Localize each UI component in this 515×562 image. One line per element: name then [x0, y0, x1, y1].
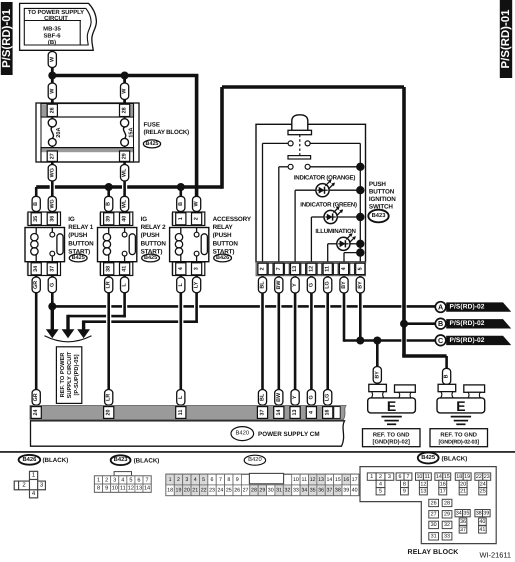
relay coil: [35, 228, 37, 234]
power supply CM connector strip: [30, 406, 346, 420]
svg-text:20: 20: [460, 481, 466, 487]
page tab P/S(RD)-01 right: [500, 0, 512, 78]
svg-text:15: 15: [444, 474, 450, 480]
svg-text:15A: 15A: [128, 127, 134, 137]
svg-text:BY: BY: [357, 281, 363, 289]
svg-text:24: 24: [217, 488, 223, 494]
svg-text:22: 22: [476, 474, 482, 480]
svg-text:40: 40: [479, 519, 485, 525]
svg-text:2: 2: [177, 477, 180, 483]
svg-text:TO POWER SUPPLY: TO POWER SUPPLY: [28, 9, 84, 16]
wire BY switch pin 5 to bus D: [359, 276, 362, 341]
wire label L below IG relay 2: [121, 277, 129, 293]
svg-text:LR: LR: [106, 394, 112, 401]
svg-text:RELAY 1: RELAY 1: [68, 224, 93, 231]
svg-text:RELAY 2: RELAY 2: [141, 224, 166, 231]
svg-text:12: 12: [420, 481, 426, 487]
svg-text:4: 4: [341, 267, 347, 270]
junction node LED illumination: [356, 240, 364, 248]
svg-text:14: 14: [144, 486, 150, 492]
svg-text:ACCESSORY: ACCESSORY: [213, 216, 252, 223]
wire label BY below switch pin 4: [340, 277, 348, 293]
svg-text:11: 11: [120, 486, 126, 492]
junction node LED orange: [356, 186, 364, 194]
junction node B bus at IG relay 2: [105, 183, 113, 191]
wire WL fuse to IG relay 2: [123, 147, 126, 213]
CM connector pin 4: [306, 407, 316, 419]
svg-text:7: 7: [219, 477, 222, 483]
svg-text:BY: BY: [341, 281, 347, 289]
legend connector B423: [114, 472, 131, 476]
svg-text:25: 25: [226, 488, 232, 494]
svg-text:GR: GR: [33, 281, 39, 289]
svg-text:3: 3: [194, 267, 200, 270]
wire label Y below switch: [291, 277, 299, 293]
fuse relay block box: [36, 103, 139, 162]
svg-text:INDICATOR (GREEN): INDICATOR (GREEN): [300, 201, 357, 208]
relay box: [170, 228, 209, 262]
svg-text:9: 9: [105, 486, 108, 492]
LED indicator green: [311, 216, 324, 218]
wire W net from power supply banner: [52, 49, 198, 212]
svg-text:[GND(RD)-02-03]: [GND(RD)-02-03]: [439, 440, 480, 446]
wire LG switch to CM 16: [326, 276, 329, 406]
svg-text:37: 37: [260, 410, 266, 416]
connector pin 28: [120, 104, 130, 116]
wire label BY below switch pin 5: [356, 277, 364, 293]
svg-text:REF. TO GND: REF. TO GND: [373, 432, 410, 439]
push button cap: [292, 115, 308, 131]
svg-text:P/S(RD)-01: P/S(RD)-01: [1, 8, 13, 68]
svg-text:(PUSH: (PUSH: [141, 232, 160, 239]
fuse block bottom connector row: [41, 148, 134, 153]
svg-text:BUTTON: BUTTON: [213, 240, 239, 247]
arrow ref 2 shaft: [66, 315, 69, 330]
svg-text:12: 12: [308, 266, 314, 272]
switch connector strip: [256, 262, 366, 276]
connector oval B425: [142, 254, 160, 262]
CM connector pin 24: [31, 407, 41, 419]
fuse 15A: [124, 117, 126, 119]
wire label W above accessory relay: [193, 196, 201, 211]
wire G switch to CM 4: [310, 276, 313, 406]
svg-text:WL: WL: [122, 199, 128, 208]
relay coil: [108, 228, 110, 234]
svg-text:8: 8: [227, 477, 230, 483]
svg-text:35: 35: [463, 510, 469, 516]
legend oval B420: [244, 455, 265, 465]
svg-text:39: 39: [343, 488, 349, 494]
svg-text:10: 10: [293, 477, 299, 483]
svg-text:28: 28: [251, 488, 257, 494]
svg-text:14: 14: [276, 410, 282, 416]
svg-text:BUTTON: BUTTON: [141, 240, 167, 247]
svg-text:9: 9: [403, 489, 406, 495]
svg-text:B: B: [33, 202, 39, 206]
svg-text:14: 14: [326, 477, 332, 483]
svg-text:28: 28: [122, 107, 128, 113]
svg-text:FUSE: FUSE: [144, 122, 161, 129]
connector oval B425: [69, 254, 87, 262]
svg-text:30: 30: [268, 488, 274, 494]
svg-text:8: 8: [403, 481, 406, 487]
junction node W bus left: [48, 72, 56, 80]
svg-text:37: 37: [326, 488, 332, 494]
wire BY switch pin 4 to bus D: [343, 276, 346, 342]
separator line: [0, 451, 515, 453]
svg-text:5: 5: [202, 477, 205, 483]
ground E1: [369, 384, 387, 391]
svg-text:30: 30: [431, 522, 437, 528]
svg-text:P/S(RD)-02: P/S(RD)-02: [450, 320, 485, 327]
junction node B net at circuit B: [400, 320, 408, 328]
svg-text:27: 27: [243, 488, 249, 494]
svg-text:8: 8: [97, 486, 100, 492]
connector pin 26: [47, 104, 57, 116]
legend oval B423: [111, 455, 131, 465]
svg-text:B: B: [438, 319, 443, 328]
svg-text:38: 38: [106, 266, 112, 272]
relay IG RELAY 2 connector top: [99, 212, 102, 225]
svg-text:14: 14: [436, 474, 442, 480]
svg-text:LR: LR: [106, 281, 112, 288]
fuse block top connector row: [41, 104, 134, 118]
svg-text:G: G: [49, 283, 55, 287]
ref arrows to power supply circuit: [46, 329, 59, 338]
wire label LG above CM 16: [324, 390, 332, 406]
relay connector bottom: [99, 262, 102, 275]
CM connector pin 37: [257, 407, 267, 419]
svg-text:34: 34: [456, 510, 462, 516]
svg-text:29: 29: [259, 488, 265, 494]
wire label BL below switch: [258, 277, 266, 293]
junction node contact pair 2 right: [356, 163, 364, 171]
svg-text:41: 41: [122, 266, 128, 272]
legend connector B426 cross: [14, 471, 45, 497]
svg-text:18: 18: [167, 488, 173, 494]
svg-text:36: 36: [318, 488, 324, 494]
svg-text:10: 10: [416, 474, 422, 480]
svg-text:B: B: [178, 202, 184, 206]
svg-text:B425: B425: [146, 141, 159, 147]
svg-text:LG: LG: [325, 281, 331, 289]
connector oval B426: [214, 254, 232, 262]
wire label LG below switch: [324, 277, 332, 293]
switch connector pin 4: [339, 263, 348, 274]
B425 cells group 10-13: [416, 473, 424, 480]
svg-text:4: 4: [178, 267, 184, 270]
svg-text:RELAY: RELAY: [213, 224, 234, 231]
wire B net to ground E2: [402, 356, 446, 385]
svg-text:B420: B420: [236, 430, 250, 437]
switch connector pin 12: [307, 263, 316, 274]
wire label W below banner: [48, 52, 56, 68]
svg-text:W: W: [122, 88, 128, 94]
svg-text:1: 1: [178, 217, 184, 220]
push button ignition switch box: [256, 124, 366, 262]
svg-text:WI-21611: WI-21611: [480, 551, 512, 560]
svg-text:ILLUMINATION: ILLUMINATION: [315, 228, 355, 235]
svg-text:IGNITION: IGNITION: [369, 196, 396, 203]
svg-text:24: 24: [480, 481, 486, 487]
svg-text:WG: WG: [49, 199, 55, 208]
relay box: [25, 228, 65, 262]
svg-text:39: 39: [483, 510, 489, 516]
svg-text:GR: GR: [33, 393, 39, 401]
relay contact: [51, 228, 53, 233]
wire label G below IG relay 1: [48, 277, 56, 293]
wire label Y above CM 13: [291, 390, 299, 406]
circuit arrow C P/S(RD)-02: [446, 336, 511, 345]
wire label B above accessory relay: [177, 196, 185, 211]
wire BW switch to CM 14: [277, 276, 280, 406]
circuit arrow A P/S(RD)-02: [446, 302, 511, 311]
svg-text:26: 26: [431, 500, 437, 506]
svg-text:21: 21: [192, 488, 198, 494]
svg-text:[P-SUP(PD)-05]: [P-SUP(PD)-05]: [73, 354, 80, 395]
connector pin 27: [47, 151, 57, 161]
arrow ref 3 shaft: [82, 320, 85, 330]
svg-text:(RELAY BLOCK): (RELAY BLOCK): [144, 129, 190, 136]
junction node bus D at ground wire: [373, 337, 381, 345]
wire label W above fuse 28: [121, 83, 129, 100]
svg-text:11: 11: [178, 410, 184, 416]
svg-text:SBF-6: SBF-6: [43, 32, 61, 39]
switch connector pin 11: [323, 263, 332, 274]
legend connector B420: [166, 474, 359, 495]
svg-text:[GND(RD)-02]: [GND(RD)-02]: [373, 439, 410, 446]
CM connector pin 20: [104, 407, 114, 419]
svg-text:6: 6: [211, 477, 214, 483]
svg-text:WG: WG: [49, 168, 55, 177]
svg-text:34: 34: [301, 488, 307, 494]
svg-text:BL: BL: [260, 281, 266, 289]
svg-text:32: 32: [285, 488, 291, 494]
connector oval B420 CM: [231, 427, 254, 441]
svg-text:W: W: [194, 200, 200, 206]
svg-text:7: 7: [145, 477, 148, 483]
svg-text:20: 20: [106, 410, 112, 416]
svg-text:(BLACK): (BLACK): [43, 457, 69, 464]
svg-text:13: 13: [136, 486, 142, 492]
junction node bus A at G wire: [48, 302, 56, 310]
svg-text:17: 17: [352, 477, 358, 483]
CM connector pin 16: [323, 407, 333, 419]
switch contact pair 2: [279, 166, 288, 168]
svg-text:31: 31: [276, 488, 282, 494]
svg-text:38: 38: [476, 510, 482, 516]
svg-text:7: 7: [276, 267, 282, 270]
svg-text:RELAY BLOCK: RELAY BLOCK: [408, 549, 459, 556]
B425 cells group 22-25: [475, 473, 483, 480]
svg-text:SUPPLY CIRCUIT: SUPPLY CIRCUIT: [67, 351, 73, 398]
relay ACCESSORY RELAY connector top: [171, 212, 174, 225]
wire label WL below fuse: [121, 165, 129, 182]
svg-text:26: 26: [234, 488, 240, 494]
wire WG fuse to IG relay 1: [51, 147, 54, 213]
svg-text:Y: Y: [292, 395, 298, 399]
wire label B above IG relay 2: [105, 196, 113, 211]
legend oval B425: [418, 452, 439, 463]
svg-text:1: 1: [97, 477, 100, 483]
wire label BL above CM 37: [258, 390, 266, 406]
relay box: [98, 228, 137, 262]
connector pin 29: [120, 151, 130, 161]
CM connector pin 14: [274, 407, 284, 419]
svg-text:C: C: [438, 336, 443, 345]
svg-text:5: 5: [357, 267, 363, 270]
wire label G below switch: [307, 277, 315, 293]
relay contact: [124, 228, 126, 233]
svg-text:2: 2: [260, 267, 266, 270]
wire GR IG relay1 to power supply CM pin 24: [35, 276, 38, 406]
svg-text:BW: BW: [276, 280, 282, 290]
svg-text:B426: B426: [22, 456, 37, 463]
wire LY accessory relay to bus C: [195, 276, 198, 323]
CM connector pin 11: [176, 407, 186, 419]
connector oval B423 switch: [368, 210, 388, 223]
svg-text:38: 38: [335, 488, 341, 494]
svg-text:35: 35: [33, 216, 39, 222]
svg-text:35: 35: [310, 488, 316, 494]
svg-text:16: 16: [440, 481, 446, 487]
svg-text:13: 13: [420, 489, 426, 495]
svg-text:16: 16: [325, 410, 331, 416]
svg-text:34: 34: [33, 266, 39, 272]
svg-text:36: 36: [460, 519, 466, 525]
svg-text:(BLACK): (BLACK): [134, 458, 160, 465]
wire B net to circuit B: [404, 322, 435, 325]
svg-text:22: 22: [201, 488, 207, 494]
svg-text:11: 11: [302, 477, 308, 483]
wire L IG relay2 to bus B: [123, 276, 126, 317]
svg-text:LY: LY: [194, 281, 200, 288]
switch connector pin 13: [291, 263, 300, 274]
push button plunger dashed line: [299, 135, 301, 156]
svg-text:13: 13: [292, 266, 298, 272]
svg-text:25: 25: [480, 489, 486, 495]
bus C segment: [84, 320, 107, 323]
svg-text:2: 2: [194, 217, 200, 220]
svg-text:13: 13: [318, 477, 324, 483]
svg-text:2: 2: [105, 477, 108, 483]
svg-text:E: E: [456, 398, 465, 414]
svg-text:PUSH: PUSH: [369, 181, 386, 188]
svg-text:23: 23: [209, 488, 215, 494]
svg-text:B423: B423: [114, 456, 129, 463]
wire Y switch to CM 13: [294, 276, 297, 406]
svg-text:24: 24: [33, 410, 39, 416]
wire label B at ground E2: [443, 368, 451, 384]
svg-text:4: 4: [379, 481, 382, 487]
B425 cells group 14-17: [435, 473, 443, 480]
wire label W above fuse 26: [48, 83, 56, 100]
arrow ref 1 shaft: [51, 306, 54, 330]
svg-text:BL: BL: [260, 393, 266, 401]
power supply CM box: [31, 421, 345, 446]
B420 bridge tab: [249, 473, 283, 483]
banner TO POWER SUPPLY CIRCUIT MB-35 SBF-6: [20, 3, 97, 50]
wire label L above CM 11: [177, 390, 185, 406]
svg-text:E: E: [387, 398, 396, 414]
svg-text:P/S(RD)-01: P/S(RD)-01: [500, 9, 512, 69]
svg-text:7: 7: [406, 474, 409, 480]
svg-text:2: 2: [379, 474, 382, 480]
wire BL switch to CM 37: [261, 276, 264, 406]
LED illumination: [328, 243, 337, 245]
svg-text:15: 15: [335, 477, 341, 483]
svg-text:11: 11: [425, 474, 431, 480]
legend oval B426: [19, 455, 41, 465]
svg-text:26: 26: [49, 107, 55, 113]
svg-text:CIRCUIT: CIRCUIT: [44, 15, 68, 22]
svg-text:28: 28: [444, 500, 450, 506]
svg-text:11: 11: [325, 266, 331, 272]
svg-text:B: B: [444, 374, 450, 378]
wire label L below accessory relay: [177, 277, 185, 293]
svg-text:MB-35: MB-35: [43, 25, 61, 32]
wire label WG above IG relay 1: [48, 196, 56, 211]
svg-text:18: 18: [456, 474, 462, 480]
junction node LED green: [356, 213, 364, 221]
svg-text:B425: B425: [72, 255, 85, 261]
svg-text:B423: B423: [372, 212, 387, 219]
relay connector bottom: [171, 262, 174, 275]
wire label B above IG relay 1: [32, 196, 40, 211]
contact bar: [288, 156, 311, 159]
B425 cells group 34-37: [455, 510, 463, 517]
svg-text:BY: BY: [374, 371, 380, 379]
svg-text:20: 20: [184, 488, 190, 494]
connector oval B425 fuse block: [143, 140, 160, 148]
switch connector pin 2: [258, 263, 267, 274]
svg-text:29: 29: [122, 153, 128, 159]
B425 cells group 6-9: [396, 473, 404, 480]
svg-text:B426: B426: [216, 255, 229, 261]
wire label LY below accessory relay: [193, 277, 201, 293]
switch connector pin 7: [274, 263, 283, 274]
svg-text:(PUSH: (PUSH: [213, 232, 232, 239]
LED indicator orange: [295, 189, 316, 191]
switch connector blank cells: [268, 263, 273, 274]
svg-text:33: 33: [293, 488, 299, 494]
svg-text:(BLACK): (BLACK): [442, 455, 468, 462]
wire label BW above CM 14: [275, 390, 283, 406]
svg-text:3: 3: [388, 474, 391, 480]
svg-text:BUTTON: BUTTON: [68, 240, 94, 247]
svg-text:G: G: [308, 395, 314, 399]
wire G IG relay1 to bus A and arrow: [51, 276, 54, 306]
svg-text:10: 10: [112, 486, 118, 492]
wire L accessory relay to CM pin 11: [180, 276, 183, 406]
B425 cells group 1-5: [367, 473, 376, 480]
svg-text:4: 4: [121, 477, 124, 483]
svg-text:4: 4: [308, 411, 314, 414]
svg-text:B425: B425: [144, 255, 157, 261]
svg-text:37: 37: [460, 527, 466, 533]
wire LR IG relay2 to CM pin 20: [107, 276, 110, 406]
page tab P/S(RD)-01 left: [1, 2, 13, 75]
svg-text:POWER SUPPLY CM: POWER SUPPLY CM: [258, 431, 320, 438]
svg-text:12: 12: [310, 477, 316, 483]
bus D BY net to ground and circuit C: [344, 339, 401, 342]
legend connector B425 relay block outline: [360, 467, 496, 544]
wire label BY at ground E1: [373, 367, 381, 384]
svg-text:WL: WL: [122, 168, 128, 177]
svg-text:Y: Y: [292, 283, 298, 287]
svg-text:INDICATOR (ORANGE): INDICATOR (ORANGE): [294, 175, 356, 182]
svg-text:(PUSH: (PUSH: [68, 232, 87, 239]
